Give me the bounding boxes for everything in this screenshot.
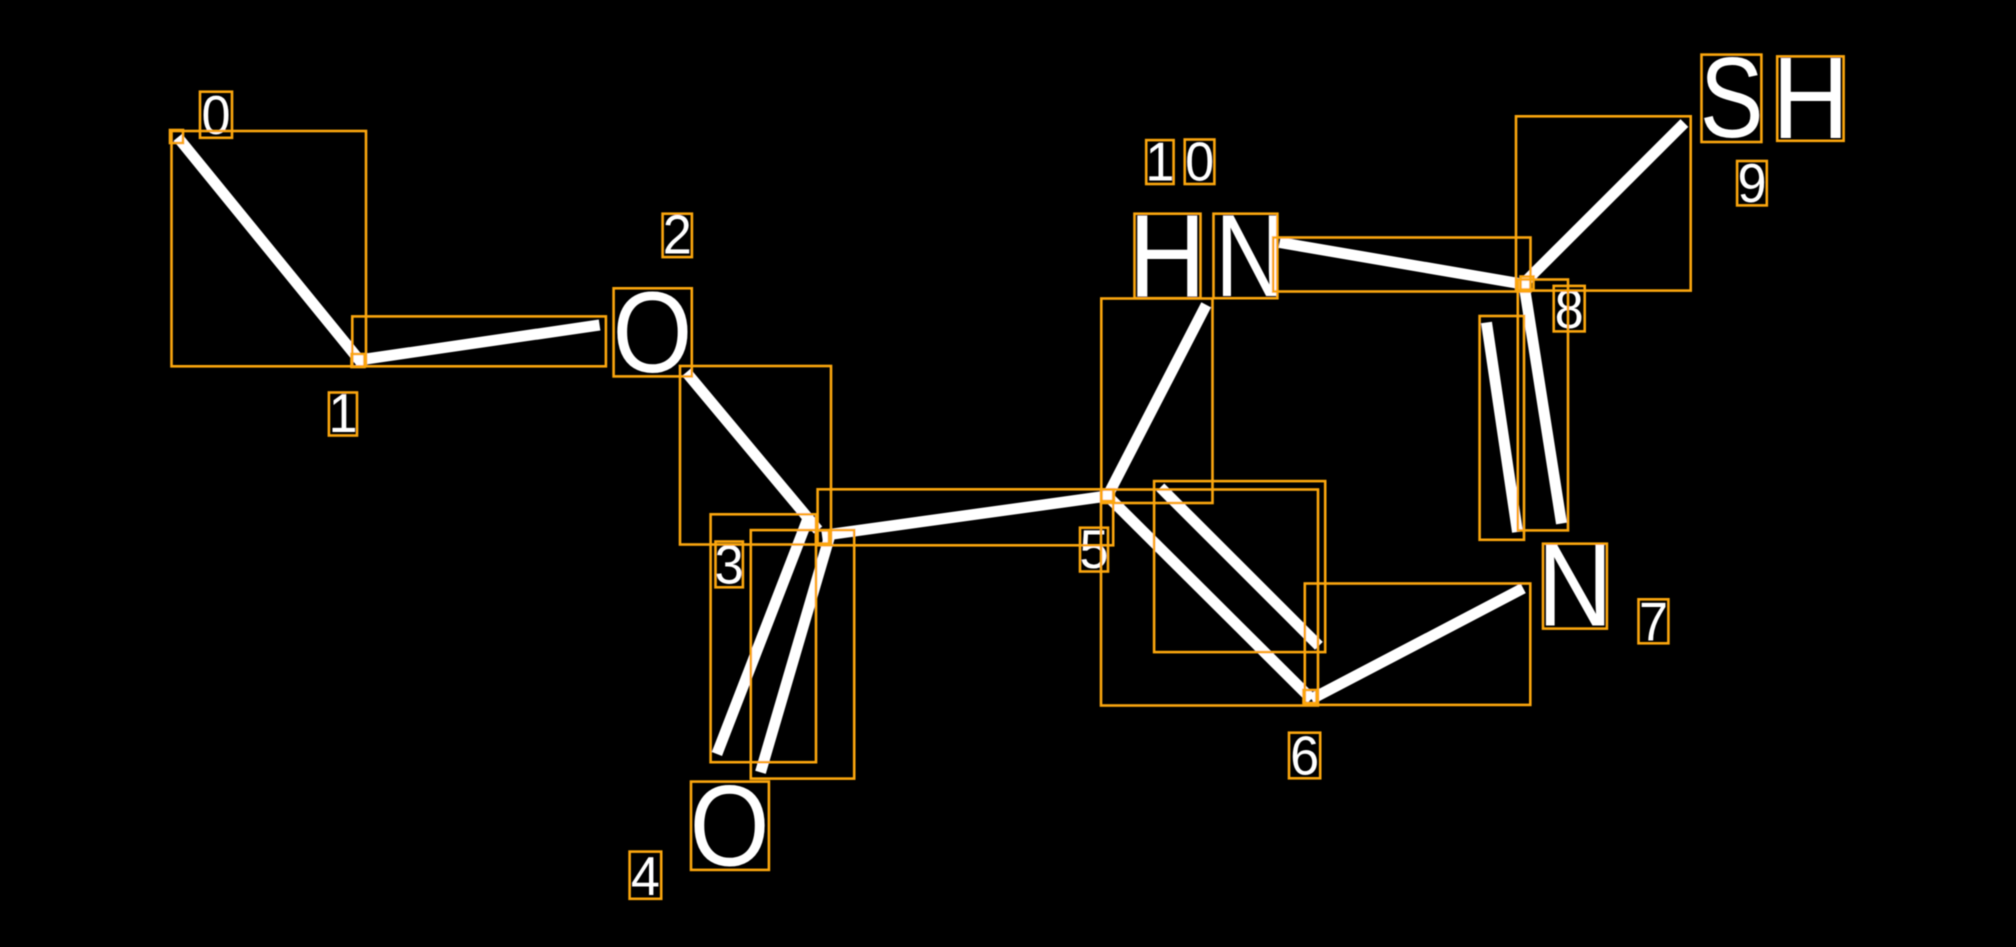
bond C5=C6 inner: [1160, 487, 1319, 645]
bbox atom C8: [1521, 277, 1534, 290]
bbox index label 8: [1554, 286, 1585, 332]
bbox index label 4: [630, 852, 662, 899]
bbox index label 10 digit 0: [1185, 140, 1215, 185]
bbox bond C3=O4 line b: [751, 530, 854, 779]
bond C5=C6 main: [1108, 496, 1312, 699]
bbox bond N7=C8 main: [1518, 280, 1568, 531]
bond C5-N10: [1108, 305, 1207, 496]
bond C6-N7: [1312, 588, 1524, 699]
bbox bond O2-C3: [680, 366, 831, 545]
bond C3=O4 line b: [761, 536, 830, 772]
bbox atom N10 H glyph: [1135, 214, 1201, 299]
bond C3=O4 line a: [717, 521, 807, 754]
bbox atom O2 glyph: [614, 288, 692, 376]
bond C8-N10: [1280, 243, 1526, 285]
bbox bond C3-C5: [818, 489, 1114, 545]
bbox index label 1: [329, 393, 357, 436]
bbox bond C0-C1: [172, 131, 367, 366]
bond O2-C3: [686, 372, 818, 530]
bbox index label 9: [1737, 161, 1767, 205]
bbox index label 7: [1639, 599, 1669, 643]
bond N7=C8 inner: [1487, 323, 1518, 533]
bond C3-C5: [822, 496, 1108, 536]
bond C0-C1 and bond C1-O2 chain: [178, 137, 600, 360]
bbox atom C3: [816, 531, 829, 544]
bbox atom N7 glyph: [1543, 544, 1607, 629]
bbox atom C0: [170, 130, 183, 143]
bbox bond C1-O2: [352, 316, 606, 366]
bbox bond C3=O4 line a: [711, 514, 816, 762]
bbox bond C6-N7: [1305, 584, 1531, 705]
bbox atom S9 H glyph: [1777, 56, 1843, 140]
bbox bond N7=C8 inner: [1480, 316, 1524, 540]
bbox index label 6: [1289, 733, 1320, 779]
bbox atom S9 S glyph: [1702, 55, 1762, 142]
bond N7=C8 main: [1524, 285, 1562, 524]
bbox atom C1: [352, 354, 365, 367]
bbox index label 2: [663, 214, 692, 257]
bbox atom N10 N glyph: [1214, 214, 1278, 299]
svg-text:H: H: [1772, 33, 1849, 163]
bbox bond C5=C6 inner: [1154, 481, 1325, 652]
bbox atom C5: [1102, 490, 1115, 502]
bbox index label 3: [716, 542, 743, 588]
bbox atom O4 glyph: [691, 782, 769, 870]
bbox index label 0: [200, 92, 232, 138]
svg-text:H: H: [1129, 190, 1207, 322]
bbox index label 10 digit 1: [1146, 140, 1173, 184]
bbox bond C5-N10: [1101, 299, 1212, 504]
bbox bond C8-N10: [1273, 238, 1530, 292]
bbox bond C8-S9: [1516, 116, 1691, 290]
bbox index label 5: [1080, 528, 1108, 572]
svg-text:N: N: [1537, 520, 1612, 651]
bbox bond C5=C6 main: [1101, 490, 1318, 706]
bond C8-S9: [1523, 123, 1684, 284]
bbox atom C6: [1304, 690, 1317, 703]
